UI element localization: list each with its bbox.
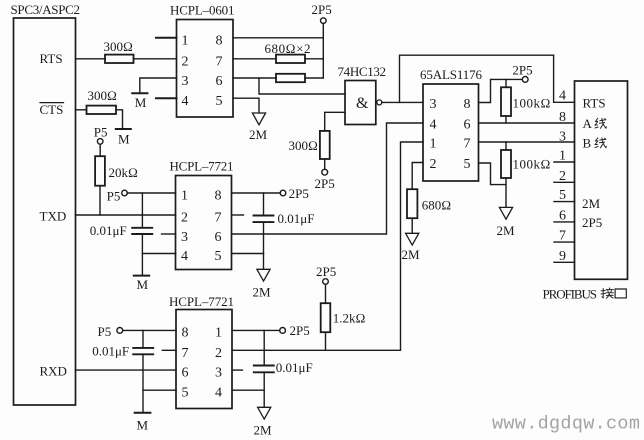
svg-text:P5: P5 (94, 125, 108, 140)
wire U4 pin4 to HCPL-7721(TXD) pin6 (232, 123, 424, 234)
svg-text:1: 1 (182, 33, 189, 48)
ground M (U5) (134, 275, 149, 277)
wire U6 pin5 (143, 389, 176, 391)
resistor R6 680ohm (407, 189, 417, 218)
svg-text:RTS: RTS (40, 51, 63, 66)
wire pin6 U2 to R4 (233, 77, 276, 79)
svg-text:7: 7 (215, 211, 222, 226)
IC SPC3/ASPC2 box (14, 18, 76, 405)
ground 2M (U6) (258, 407, 271, 419)
optocoupler U5 HCPL-7721 (TXD) box (176, 176, 232, 270)
hanzi jie-kou (PROFIBUS interface) (601, 288, 626, 298)
svg-text:2M: 2M (582, 196, 601, 211)
svg-text:2: 2 (182, 54, 189, 69)
svg-text:HCPL–0601: HCPL–0601 (170, 2, 235, 17)
wire U5 pin8 to 2P5 (232, 192, 281, 194)
wire TXD from SPC3 to U5 pin2 (76, 214, 176, 216)
terminal 2P5 (top) (322, 23, 324, 78)
ground M (U6) (135, 412, 151, 414)
svg-text:2P5: 2P5 (582, 215, 602, 230)
svg-text:2M: 2M (402, 247, 421, 262)
svg-text:7: 7 (464, 137, 471, 152)
wire R4 to 2P5 rail (305, 77, 323, 79)
terminal P5 (U6 pin8) (117, 328, 123, 334)
svg-text:2P5: 2P5 (312, 2, 332, 17)
hanzi xian (B line) (595, 138, 606, 148)
svg-text:6: 6 (182, 366, 189, 381)
wire U6 pin4 to ground net (232, 389, 264, 391)
svg-text:6: 6 (464, 118, 471, 133)
svg-text:6: 6 (559, 208, 566, 223)
optocoupler U2 HCPL-0601 box (177, 20, 234, 118)
svg-text:www.dgdqw.com: www.dgdqw.com (492, 414, 640, 435)
svg-text:2: 2 (215, 346, 222, 361)
svg-text:8: 8 (559, 110, 566, 125)
wire P5 to U5 pin1 (127, 192, 175, 194)
capacitor C4 0.01uF (254, 365, 274, 367)
svg-text:P5: P5 (107, 188, 121, 203)
svg-text:9: 9 (559, 249, 566, 264)
wire U5 pin5 to ground net (232, 253, 264, 255)
wire NAND output to 65ALS1176 pin3 (382, 101, 423, 103)
wire C4 down to ground (263, 372, 265, 406)
ground M (CTS) (116, 128, 131, 130)
terminal 2P5 (U6 pin1) (280, 328, 286, 334)
stub U6 pin3 (232, 369, 242, 371)
resistor R7 100k (505, 80, 507, 88)
svg-text:3: 3 (215, 366, 222, 381)
svg-text:300Ω: 300Ω (88, 88, 118, 103)
wire pin7 U2 to R3 (233, 58, 276, 60)
wire NAND input 2 from 300ohm (325, 112, 345, 131)
svg-text:HCPL–7721: HCPL–7721 (169, 294, 234, 309)
capacitor C1 0.01uF (132, 227, 152, 229)
svg-text:2P5: 2P5 (289, 186, 309, 201)
svg-text:M: M (118, 131, 130, 146)
svg-text:2: 2 (181, 211, 188, 226)
svg-text:3: 3 (182, 74, 189, 89)
svg-text:1: 1 (559, 149, 566, 164)
wire C1 to ground M (141, 234, 143, 275)
capacitor C2 0.01uF (254, 215, 274, 217)
svg-text:7: 7 (182, 346, 189, 361)
svg-text:M: M (137, 277, 149, 292)
svg-text:2P5: 2P5 (316, 264, 336, 279)
svg-text:RTS: RTS (583, 96, 606, 111)
svg-text:4: 4 (430, 118, 437, 133)
wire A-line U4 pin6 to connector pin8 (479, 122, 575, 124)
wire R9 to TXD net (99, 186, 101, 215)
resistor R1 300ohm (RTS series) (105, 55, 134, 63)
svg-text:RXD: RXD (40, 364, 67, 379)
svg-text:300Ω: 300Ω (104, 39, 134, 54)
svg-text:680Ω: 680Ω (422, 198, 452, 213)
wire R8 to ground (505, 178, 507, 207)
wire vdd branch down to cap C1 (141, 193, 143, 228)
resistor R9 20kohm (95, 156, 105, 186)
wire R5 to 2P5 terminal (324, 159, 326, 169)
svg-text:PROFIBUS: PROFIBUS (543, 287, 598, 302)
stub U5 pin3 (162, 233, 176, 235)
wire pin8 U2 to 2P5 rail (233, 37, 323, 39)
svg-text:4: 4 (215, 386, 222, 401)
svg-text:0.01μF: 0.01μF (276, 360, 313, 375)
svg-text:2M: 2M (253, 285, 272, 300)
wire U4 pin8 to 2P5 terminal (479, 79, 523, 102)
ground 2M (U2 pin5) (252, 113, 265, 125)
wire R1 to HCPL-0601 pin2 (134, 58, 177, 60)
terminal 2P5 (U4) (522, 77, 528, 83)
capacitor C3 0.01uF (133, 347, 153, 349)
svg-text:4: 4 (182, 94, 189, 109)
svg-text:&: & (356, 95, 369, 112)
wire stub pin1 U2 (156, 37, 177, 39)
svg-text:2M: 2M (254, 423, 273, 438)
svg-text:3: 3 (430, 97, 437, 112)
wire branch down to cap C2 (263, 193, 265, 216)
svg-text:74HC132: 74HC132 (338, 64, 387, 79)
terminal 2P5 (below R5) (322, 169, 328, 175)
wire pin5 U2 down (233, 98, 259, 112)
svg-text:2M: 2M (249, 127, 268, 142)
svg-text:65ALS1176: 65ALS1176 (420, 67, 483, 82)
wire stub pin4 U2 (156, 97, 177, 99)
stub U6 pin7 (162, 349, 176, 351)
svg-text:5: 5 (182, 386, 189, 401)
svg-text:8: 8 (216, 33, 223, 48)
resistor R5 300ohm (vertical) (320, 131, 330, 159)
svg-text:2: 2 (559, 169, 566, 184)
wire C3 down to ground M (142, 354, 144, 412)
svg-text:1.2kΩ: 1.2kΩ (333, 311, 366, 326)
svg-text:3: 3 (559, 129, 566, 144)
svg-text:4: 4 (559, 89, 566, 104)
pin 6 stub (554, 221, 575, 223)
ground 2M (U5) (257, 269, 270, 281)
svg-text:2: 2 (430, 157, 437, 172)
svg-text:0.01μF: 0.01μF (92, 344, 129, 359)
svg-text:1: 1 (430, 137, 437, 152)
wire U6 pin1 to 2P5 (232, 329, 280, 331)
wire branch down to cap C3 (142, 330, 144, 348)
svg-text:SPC3/ASPC2: SPC3/ASPC2 (11, 2, 81, 17)
wire B-line U4 pin7 to connector pin3 (479, 141, 575, 143)
svg-text:M: M (135, 95, 147, 110)
wire U4 pin1 to HCPL-7721(RXD) pin2 (232, 142, 423, 350)
wire R6 to ground (411, 218, 413, 233)
terminal P5 with 20k pullup (97, 139, 103, 145)
svg-text:5: 5 (559, 188, 566, 203)
gate U3 74HC132 box (345, 81, 376, 125)
svg-text:5: 5 (464, 157, 471, 172)
svg-text:M: M (137, 418, 149, 433)
resistor R3 680ohm (276, 55, 305, 63)
svg-text:8: 8 (464, 97, 471, 112)
svg-text:5: 5 (215, 249, 222, 264)
terminal P5 (U5 pin1) (122, 190, 128, 196)
stub U5 pin7 (232, 214, 244, 216)
resistor R10 1.2kohm (321, 303, 331, 332)
ground 2M (R6) (406, 233, 419, 245)
wire RXD from SPC3 to U6 pin6 (76, 369, 177, 371)
svg-text:6: 6 (215, 230, 222, 245)
wire U4 pin2 to R6 (412, 163, 423, 190)
wire U4 pin5 to ground net (479, 163, 507, 185)
svg-text:1: 1 (215, 326, 222, 341)
output bubble U3 (377, 100, 382, 105)
wire CTS from SPC3 to R2 (76, 109, 87, 111)
hanzi xian (A line) (595, 118, 606, 128)
connector J1 PROFIBUS box (575, 81, 628, 279)
svg-text:100kΩ: 100kΩ (513, 96, 551, 111)
svg-text:6: 6 (216, 74, 223, 89)
svg-text:300Ω: 300Ω (289, 138, 319, 153)
svg-text:HCPL–7721: HCPL–7721 (170, 159, 234, 174)
pin 5 stub (554, 201, 575, 203)
resistor R4 680ohm (276, 74, 305, 82)
wire R10 to RXD data net (325, 332, 327, 350)
svg-text:2P5: 2P5 (290, 323, 310, 338)
terminal 2P5 (U5 pin8) (280, 190, 286, 196)
svg-text:P5: P5 (98, 324, 112, 339)
wire node pin6 down to NAND input (259, 78, 345, 94)
svg-text:A: A (583, 116, 593, 131)
svg-text:3: 3 (181, 230, 188, 245)
pin 2 stub (554, 181, 575, 183)
svg-text:5: 5 (216, 94, 223, 109)
svg-text:B: B (583, 136, 592, 151)
wire RTS from SPC3 to R1 (76, 58, 106, 60)
resistor R2 300ohm (CTS series) (87, 106, 117, 114)
svg-text:2M: 2M (497, 223, 516, 238)
svg-text:CTS: CTS (40, 102, 64, 117)
ground 2M (U4 pin5/R8) (499, 207, 512, 219)
pin 9 stub (554, 261, 575, 263)
svg-text:1: 1 (181, 189, 188, 204)
svg-text:7: 7 (559, 229, 566, 244)
pin 7 stub (554, 241, 575, 243)
svg-text:100kΩ: 100kΩ (513, 157, 551, 172)
wire R2 to ground M (116, 110, 123, 129)
transceiver U4 65ALS1176 box (423, 84, 479, 181)
wire C2 down to ground (263, 222, 265, 269)
svg-text:20kΩ: 20kΩ (109, 165, 139, 180)
pin 1 stub (554, 161, 575, 163)
resistor R8 100k (505, 142, 507, 150)
svg-text:0.01μF: 0.01μF (278, 211, 315, 226)
svg-text:TXD: TXD (40, 208, 67, 223)
wire branch down to cap C4 (263, 330, 265, 365)
svg-text:4: 4 (181, 249, 188, 264)
wire pin3 U2 to ground (140, 78, 177, 92)
wire U5 pin4 (142, 253, 175, 255)
svg-text:0.01μF: 0.01μF (90, 223, 127, 238)
wire R3 to 2P5 rail (305, 58, 323, 60)
svg-text:8: 8 (182, 326, 189, 341)
svg-text:7: 7 (216, 54, 223, 69)
wire P5 to U6 pin8 (123, 329, 176, 331)
wire RTS net up and over to connector pin4 (400, 55, 575, 102)
svg-text:2P5: 2P5 (512, 63, 532, 78)
optocoupler U6 HCPL-7721 (RXD) box (176, 310, 232, 409)
svg-text:2P5: 2P5 (315, 176, 335, 191)
svg-text:8: 8 (215, 189, 222, 204)
ground M (U2 pin3) (132, 92, 147, 94)
